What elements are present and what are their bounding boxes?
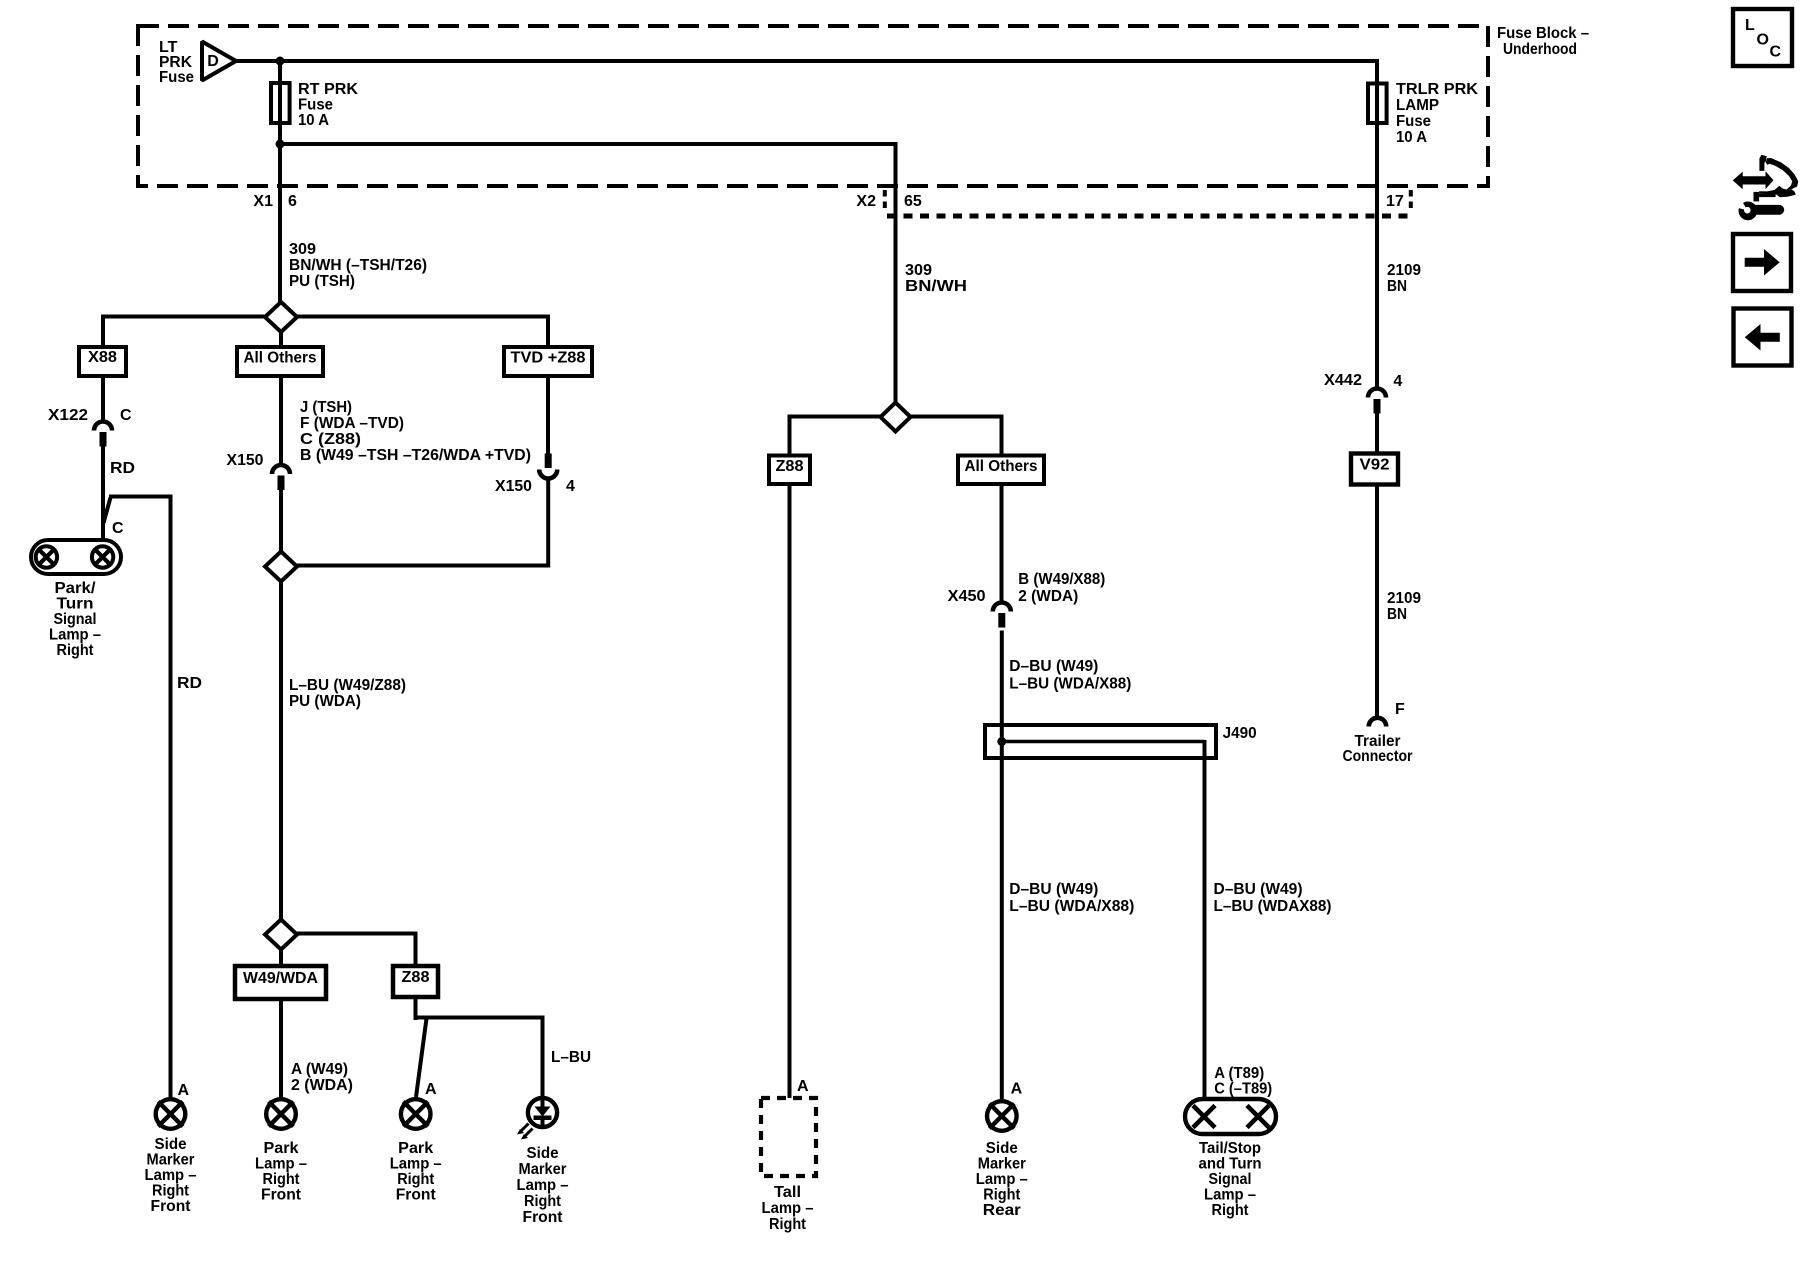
svg-text:Lamp –: Lamp –: [145, 1167, 197, 1184]
caption Side Marker Lamp - Right Rear: [976, 1140, 1028, 1219]
connector X442 pin 4: [1368, 389, 1386, 414]
wire: V92 to trailer connector: [1375, 485, 1379, 719]
svg-text:Side: Side: [986, 1140, 1018, 1157]
svg-text:X88: X88: [88, 349, 117, 366]
caption Side Marker Lamp - Right Front: [145, 1136, 197, 1215]
wire: slant to park lamp 2 pin A: [416, 1019, 427, 1098]
box W49/WDA: [235, 966, 326, 999]
svg-text:65: 65: [904, 193, 922, 210]
label pin 17: [1386, 193, 1404, 210]
svg-text:D–BU (W49): D–BU (W49): [1009, 881, 1098, 898]
label A at park lamp 2: [425, 1081, 437, 1098]
svg-text:Rear: Rear: [983, 1202, 1021, 1219]
fuse LT PRK (triangle D): [202, 42, 236, 81]
svg-text:10 A: 10 A: [298, 112, 329, 129]
caption Park Lamp - Right Front (1): [255, 1140, 307, 1204]
svg-text:LAMP: LAMP: [1396, 97, 1439, 114]
box All Others (rear): [958, 456, 1044, 485]
svg-text:Park: Park: [398, 1140, 433, 1157]
wire: branch to LED side marker: [414, 1016, 543, 1020]
svg-text:2 (WDA): 2 (WDA): [291, 1077, 353, 1094]
wire: diamond2 to diamond3: [279, 581, 283, 920]
svg-text:B (W49 –TSH –T26/WDA +TVD): B (W49 –TSH –T26/WDA +TVD): [300, 447, 531, 464]
label TRLR PRK LAMP Fuse 10 A: [1396, 81, 1478, 146]
svg-text:Signal: Signal: [54, 611, 97, 628]
lamp park/turn signal right (housing): [31, 540, 121, 574]
svg-text:Lamp –: Lamp –: [976, 1171, 1028, 1188]
box X88: [79, 347, 126, 376]
wire: diamond3 to W49/WDA box: [279, 949, 283, 967]
label X150 4: [495, 478, 575, 495]
box Z88 (front): [393, 966, 438, 997]
svg-text:F (WDA –TVD): F (WDA –TVD): [300, 415, 404, 432]
fuse TRLR PRK LAMP 10A: [1368, 83, 1387, 123]
svg-text:RD: RD: [177, 675, 202, 692]
svg-text:17: 17: [1386, 193, 1404, 210]
fuse RT PRK 10A: [271, 83, 290, 123]
label LT PRK Fuse: [159, 39, 194, 86]
caption Trailer Connector: [1343, 733, 1413, 765]
label A at side marker RR: [1011, 1081, 1023, 1098]
connector trailer (arc): [1369, 718, 1386, 727]
wire: diamond1 left branch: [101, 315, 267, 349]
connector X122 pin C: [94, 422, 112, 447]
svg-text:F: F: [1395, 701, 1405, 718]
wire: X122 to lamp pin C: [101, 446, 105, 542]
connector X450: [993, 603, 1011, 628]
svg-text:Front: Front: [523, 1209, 564, 1226]
svg-text:A: A: [425, 1081, 437, 1098]
svg-text:RD: RD: [110, 460, 135, 477]
svg-text:X2: X2: [856, 193, 876, 210]
svg-text:Right: Right: [263, 1171, 301, 1188]
label J F C B pins: [300, 399, 531, 464]
svg-text:Turn: Turn: [57, 596, 94, 613]
svg-text:Right: Right: [983, 1187, 1021, 1204]
svg-text:Side: Side: [527, 1145, 559, 1162]
label X2 65: [856, 193, 921, 210]
connector X2 dotted line: [887, 214, 1410, 219]
icon left-arrow box: [1734, 309, 1792, 366]
svg-text:Right: Right: [524, 1193, 562, 1210]
splice diamond S3: [265, 920, 297, 950]
svg-text:A (W49): A (W49): [291, 1061, 348, 1078]
svg-text:Tall: Tall: [774, 1184, 801, 1201]
svg-text:C (–T89): C (–T89): [1214, 1081, 1272, 1098]
wire: Z88 box down: [414, 997, 418, 1020]
svg-text:A: A: [797, 1078, 809, 1095]
box V92: [1351, 454, 1398, 485]
node: junction dot in J490: [997, 737, 1006, 746]
wire: through J490 to side marker rear: [1000, 725, 1004, 1099]
label X122 C: [48, 407, 132, 424]
svg-text:Underhood: Underhood: [1503, 41, 1577, 58]
wire: diamond4 to All Others box (rear): [910, 417, 1004, 457]
label Fuse Block - Underhood: [1497, 25, 1589, 58]
wire: J490 internal bus: [1002, 740, 1205, 744]
wire: horizontal bus to X2 drop: [278, 142, 896, 146]
svg-text:C: C: [112, 520, 124, 537]
svg-text:J (TSH): J (TSH): [300, 399, 352, 416]
box Z88 (rear): [769, 456, 810, 485]
label A (T89) C (-T89): [1214, 1065, 1272, 1098]
label D-BU L-BU (above J490): [1009, 658, 1131, 693]
wire: X2-65 drop to splice diamond: [894, 142, 898, 404]
svg-text:Side: Side: [155, 1136, 187, 1153]
svg-text:309: 309: [905, 262, 932, 279]
connector X150 pin 4 (flipped): [539, 454, 557, 479]
svg-text:PU (WDA): PU (WDA): [289, 693, 361, 710]
svg-text:J490: J490: [1223, 725, 1257, 742]
wire: junction to RT PRK fuse: [278, 61, 282, 82]
svg-text:2 (WDA): 2 (WDA): [1018, 588, 1078, 605]
label A at side marker RF: [178, 1082, 190, 1099]
svg-text:D–BU (W49): D–BU (W49): [1009, 658, 1098, 675]
svg-text:TVD +Z88: TVD +Z88: [511, 350, 586, 367]
svg-text:2109: 2109: [1387, 590, 1421, 607]
svg-text:L–BU (WDA/X88): L–BU (WDA/X88): [1009, 676, 1131, 693]
svg-text:4: 4: [566, 478, 575, 495]
svg-text:X150: X150: [495, 478, 532, 495]
svg-text:All Others: All Others: [965, 458, 1038, 475]
svg-text:4: 4: [1393, 373, 1402, 390]
svg-text:Lamp –: Lamp –: [390, 1156, 442, 1173]
svg-text:Fuse: Fuse: [298, 97, 333, 114]
svg-text:Signal: Signal: [1209, 1171, 1252, 1188]
label 309 BN/WH: [905, 262, 967, 295]
wire: X450 to splice pack J490: [1000, 631, 1004, 728]
svg-text:BN/WH (–TSH/T26): BN/WH (–TSH/T26): [289, 257, 427, 274]
svg-text:Front: Front: [396, 1187, 437, 1204]
label J490: [1223, 725, 1257, 742]
svg-text:Tail/Stop: Tail/Stop: [1199, 1140, 1261, 1157]
svg-text:L–BU: L–BU: [551, 1049, 591, 1066]
wire: branch slant joint: [104, 498, 111, 524]
svg-text:Lamp –: Lamp –: [517, 1177, 569, 1194]
svg-text:Marker: Marker: [147, 1152, 195, 1169]
label 309 BN/WH (-TSH/T26) PU (TSH): [289, 241, 427, 290]
box All Others (left): [237, 347, 323, 376]
wire: diamond4 to Z88 box (rear): [788, 417, 882, 457]
wire: diamond1 to All Others box: [279, 331, 283, 348]
caption Tall Lamp - Right: [762, 1184, 814, 1233]
label X450 B 2: [948, 571, 1106, 605]
svg-text:A: A: [1011, 1081, 1023, 1098]
svg-text:Park: Park: [264, 1140, 299, 1157]
node: junction dot at LT PRK output: [276, 57, 285, 66]
splice diamond S4: [881, 403, 911, 432]
caption Park/Turn Signal Lamp - Right: [49, 580, 101, 659]
svg-text:Lamp –: Lamp –: [49, 627, 101, 644]
svg-text:Right: Right: [1212, 1202, 1250, 1219]
lamp park right front 2 (bulb): [401, 1099, 431, 1129]
lamp tail/stop and turn signal (housing): [1185, 1099, 1276, 1134]
lamp side marker right rear (bulb): [987, 1101, 1017, 1131]
wire: J490 to tail/stop lamp: [1203, 740, 1207, 1099]
svg-text:W49/WDA: W49/WDA: [243, 970, 318, 987]
caption Park Lamp - Right Front (2): [390, 1140, 442, 1204]
svg-text:L–BU (WDAX88): L–BU (WDAX88): [1214, 898, 1332, 915]
svg-text:and Turn: and Turn: [1199, 1156, 1262, 1173]
wire: diamond1 right branch: [295, 315, 550, 349]
label D-BU L-BU (left pair): [1009, 881, 1134, 915]
wire: W49/WDA box to park lamp: [279, 999, 283, 1098]
svg-text:O: O: [1757, 32, 1769, 49]
svg-text:X1: X1: [253, 193, 273, 210]
wire: branch to side marker (horizontal): [109, 495, 171, 499]
svg-text:X150: X150: [227, 452, 264, 469]
connector X2 left cap: [883, 190, 887, 212]
connector X150 (left): [272, 465, 290, 490]
label A (W49) 2 (WDA): [291, 1061, 353, 1094]
svg-text:Right: Right: [57, 642, 95, 659]
svg-text:Connector: Connector: [1343, 748, 1413, 765]
svg-text:BN/WH: BN/WH: [905, 278, 967, 295]
svg-text:C (Z88): C (Z88): [300, 431, 361, 448]
svg-text:Lamp –: Lamp –: [255, 1156, 307, 1173]
icon right-arrow box: [1733, 234, 1791, 291]
svg-text:TRLR PRK: TRLR PRK: [1396, 81, 1478, 98]
wire: X442 to V92: [1375, 411, 1379, 455]
svg-text:B (W49/X88): B (W49/X88): [1018, 571, 1105, 588]
wire: pin 17 drop to X442: [1375, 125, 1379, 389]
label D-BU L-BU (right pair): [1214, 881, 1332, 915]
label L-BU: [551, 1049, 591, 1066]
fuse block - underhood (dashed box): [138, 26, 1488, 186]
label RT PRK Fuse 10 A: [298, 81, 358, 129]
svg-text:Marker: Marker: [519, 1161, 567, 1178]
box TVD +Z88: [504, 347, 592, 376]
svg-text:Park/: Park/: [55, 580, 97, 597]
svg-text:6: 6: [288, 193, 297, 210]
svg-text:Front: Front: [151, 1198, 192, 1215]
splice diamond S2: [265, 552, 297, 582]
svg-text:L–BU (W49/Z88): L–BU (W49/Z88): [289, 677, 406, 694]
svg-text:L: L: [1745, 17, 1755, 34]
lamp park right front 1 (bulb): [266, 1099, 296, 1129]
wire: X150 to diamond2: [279, 490, 283, 552]
label 2109 BN (lower): [1387, 590, 1421, 623]
svg-text:X442: X442: [1324, 372, 1362, 389]
svg-text:D–BU (W49): D–BU (W49): [1214, 881, 1303, 898]
svg-text:Marker: Marker: [978, 1156, 1026, 1173]
wire: X1-6 drop to splice diamond: [278, 125, 282, 303]
wire: X88 to connector X122: [101, 376, 105, 422]
svg-text:All Others: All Others: [244, 350, 317, 367]
svg-text:10 A: 10 A: [1396, 129, 1427, 146]
wire: X150-4 down to diamond2 level: [546, 480, 550, 568]
svg-text:X122: X122: [48, 407, 88, 424]
label L-BU (W49/Z88) PU (WDA): [289, 677, 406, 710]
svg-text:Fuse: Fuse: [1396, 113, 1431, 130]
icon vehicle/wrench: [1733, 155, 1799, 221]
wire: long RD drop to side marker lamp: [169, 495, 173, 1099]
wire: All Others box to X150: [279, 376, 283, 465]
wire: Z88 rear long drop to tail lamp: [788, 484, 792, 1098]
svg-text:Right: Right: [397, 1171, 435, 1188]
icon LOC box: [1733, 9, 1792, 66]
wire: horizontal into diamond2: [296, 564, 550, 568]
svg-text:309: 309: [289, 241, 316, 258]
svg-text:C: C: [1770, 44, 1782, 61]
label A at tail lamp: [797, 1078, 809, 1095]
connector X2 right cap: [1409, 190, 1413, 212]
svg-text:Fuse Block –: Fuse Block –: [1497, 25, 1589, 42]
svg-text:L–BU (WDA/X88): L–BU (WDA/X88): [1009, 898, 1134, 915]
svg-text:D: D: [207, 53, 219, 70]
caption Side Marker Lamp - Right Front (LED): [517, 1145, 569, 1226]
label RD (lower): [177, 675, 202, 692]
wire: diamond3 right branch: [295, 934, 418, 968]
wire: drop to TRLR PRK LAMP fuse: [1375, 59, 1379, 82]
svg-text:Lamp –: Lamp –: [762, 1200, 814, 1217]
label F: [1395, 701, 1405, 718]
svg-text:V92: V92: [1360, 457, 1390, 474]
svg-text:A (T89): A (T89): [1214, 1065, 1264, 1082]
label RD (upper): [110, 460, 135, 477]
svg-text:PU (TSH): PU (TSH): [289, 273, 355, 290]
svg-text:RT PRK: RT PRK: [298, 81, 358, 98]
svg-text:C: C: [120, 407, 132, 424]
label C at lamp: [112, 520, 124, 537]
svg-text:Z88: Z88: [402, 969, 430, 986]
svg-text:Right: Right: [152, 1183, 190, 1200]
lamp side marker right front LED: [517, 1096, 557, 1140]
lamp tail right (dashed box): [761, 1098, 816, 1176]
label X442 4: [1324, 372, 1402, 390]
caption Tail/Stop and Turn Signal Lamp - Right: [1199, 1140, 1262, 1219]
label X150 (left): [227, 452, 264, 469]
svg-text:Z88: Z88: [776, 458, 804, 475]
svg-text:Right: Right: [769, 1216, 807, 1233]
svg-text:BN: BN: [1387, 278, 1407, 295]
wire: All Others rear to X450: [1000, 484, 1004, 603]
wire: TVD box to connector X150-4: [546, 376, 550, 454]
splice diamond S1: [265, 302, 297, 332]
svg-text:X450: X450: [948, 588, 986, 605]
label X1 6: [253, 193, 297, 210]
wire: LT PRK fuse output to right corner: [237, 59, 1379, 63]
wire: LED side marker drop: [541, 1016, 545, 1097]
svg-text:Fuse: Fuse: [159, 69, 194, 86]
svg-text:BN: BN: [1387, 606, 1407, 623]
svg-text:2109: 2109: [1387, 262, 1421, 279]
svg-text:Lamp –: Lamp –: [1204, 1187, 1256, 1204]
node: junction dot below RT PRK fuse: [276, 140, 285, 149]
wire: RT PRK fuse to bus: [278, 125, 282, 146]
lamp side marker right front (bulb): [156, 1099, 186, 1129]
label 2109 BN (upper): [1387, 262, 1421, 295]
splice pack J490: [985, 725, 1216, 758]
svg-text:Front: Front: [261, 1187, 302, 1204]
svg-text:A: A: [178, 1082, 190, 1099]
